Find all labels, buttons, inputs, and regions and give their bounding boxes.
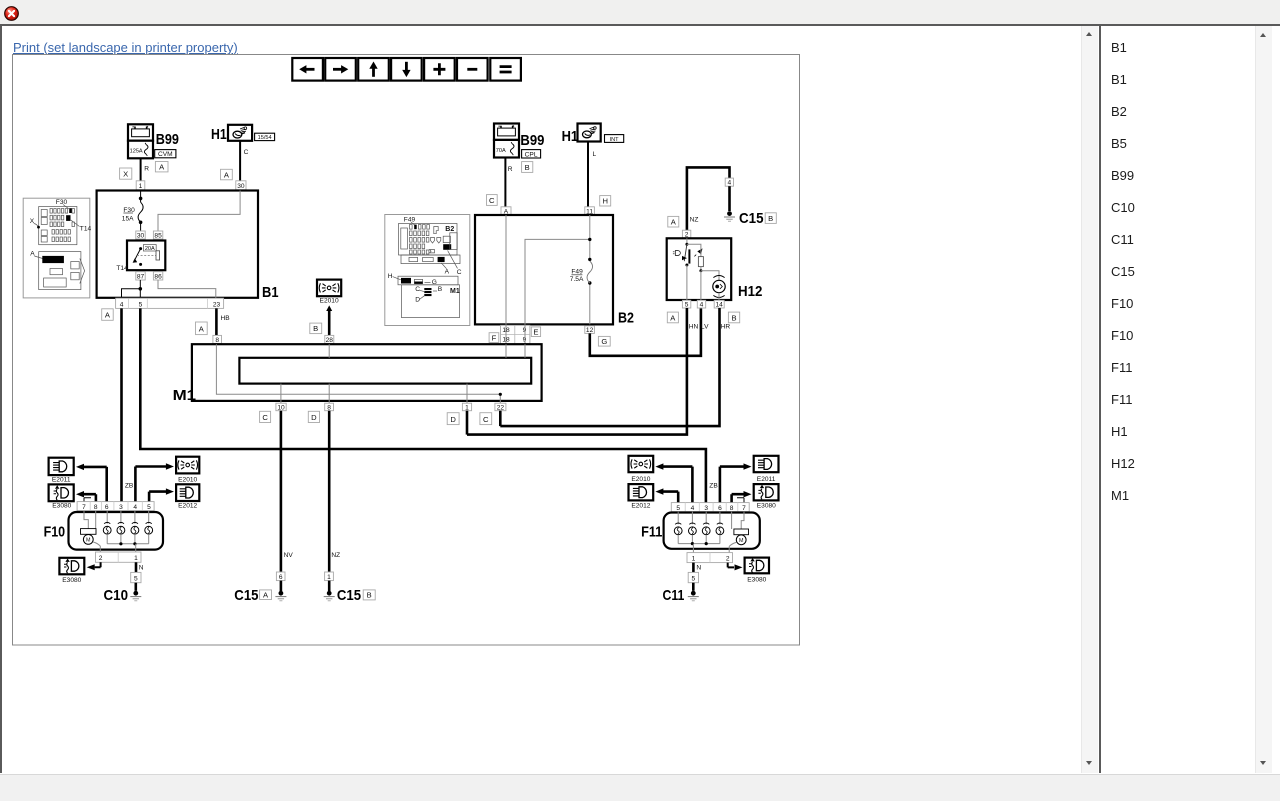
svg-text:22: 22 (497, 404, 505, 411)
svg-text:R: R (508, 166, 513, 173)
svg-text:T14: T14 (80, 225, 92, 232)
svg-text:R: R (144, 165, 149, 172)
svg-text:CPL: CPL (525, 151, 538, 158)
svg-text:1: 1 (139, 183, 143, 190)
svg-text:E3080: E3080 (757, 502, 776, 509)
svg-text:3: 3 (704, 505, 708, 512)
svg-text:F11: F11 (641, 524, 662, 541)
svg-text:7: 7 (742, 505, 746, 512)
svg-text:H1: H1 (562, 128, 579, 145)
svg-text:F10: F10 (44, 524, 66, 541)
svg-text:C: C (262, 413, 268, 422)
svg-text:28: 28 (326, 337, 334, 344)
svg-text:A: A (30, 251, 35, 258)
svg-text:4: 4 (691, 505, 695, 512)
svg-text:CVM: CVM (158, 151, 173, 158)
svg-text:B2: B2 (618, 309, 634, 326)
svg-text:30: 30 (137, 232, 145, 239)
svg-text:20A: 20A (145, 246, 155, 252)
svg-text:H: H (388, 273, 393, 280)
svg-text:B: B (438, 286, 443, 293)
svg-text:M: M (739, 538, 744, 544)
svg-text:F49: F49 (404, 217, 416, 224)
svg-text:2: 2 (726, 555, 730, 562)
svg-text:E2011: E2011 (52, 477, 71, 484)
svg-text:F: F (492, 333, 497, 342)
svg-text:B: B (313, 324, 318, 333)
svg-text:1: 1 (465, 404, 469, 411)
svg-text:C: C (457, 269, 462, 276)
svg-text:E2010: E2010 (320, 297, 339, 304)
svg-text:E3080: E3080 (62, 577, 81, 584)
svg-text:A: A (445, 268, 450, 275)
svg-text:8: 8 (215, 337, 219, 344)
svg-text:86: 86 (154, 273, 162, 280)
svg-text:85: 85 (154, 232, 162, 239)
svg-text:5: 5 (685, 302, 689, 309)
svg-text:C15: C15 (739, 210, 764, 227)
svg-text:M1: M1 (450, 288, 460, 295)
svg-text:N: N (696, 564, 701, 571)
svg-text:F30: F30 (56, 199, 68, 206)
svg-text:B99: B99 (520, 132, 544, 149)
svg-text:B: B (525, 163, 530, 172)
svg-text:C: C (415, 286, 420, 293)
svg-text:NZ: NZ (690, 217, 699, 224)
svg-text:C15: C15 (337, 587, 361, 604)
svg-text:HB: HB (221, 315, 231, 322)
svg-text:B: B (768, 214, 773, 223)
svg-text:INT: INT (610, 137, 620, 143)
svg-text:E2010: E2010 (631, 476, 650, 483)
svg-text:15/54: 15/54 (258, 135, 272, 141)
svg-text:125A: 125A (130, 149, 143, 155)
svg-text:5: 5 (134, 575, 138, 582)
svg-text:X: X (123, 169, 128, 178)
svg-text:5: 5 (139, 301, 143, 308)
svg-text:HN: HN (689, 324, 699, 331)
svg-text:H12: H12 (738, 283, 762, 300)
svg-text:ZB: ZB (125, 483, 134, 490)
svg-text:B: B (367, 591, 372, 600)
svg-text:C10: C10 (104, 587, 129, 604)
svg-text:C11: C11 (663, 587, 685, 604)
svg-text:70A: 70A (496, 148, 506, 154)
svg-text:D: D (311, 413, 317, 422)
svg-text:G: G (601, 337, 607, 346)
svg-text:N: N (139, 564, 144, 571)
svg-text:C: C (244, 149, 249, 156)
svg-text:8: 8 (94, 504, 98, 511)
svg-text:1: 1 (692, 555, 696, 562)
svg-text:5: 5 (147, 504, 151, 511)
svg-text:B99: B99 (156, 131, 179, 148)
svg-text:12: 12 (586, 327, 594, 334)
svg-text:5: 5 (691, 575, 695, 582)
svg-text:8: 8 (327, 404, 331, 411)
svg-text:4: 4 (133, 504, 137, 511)
svg-text:3: 3 (119, 504, 123, 511)
svg-text:NZ: NZ (331, 552, 340, 559)
svg-text:6: 6 (718, 505, 722, 512)
svg-text:4: 4 (727, 180, 731, 187)
svg-text:7: 7 (82, 504, 86, 511)
svg-text:2: 2 (99, 555, 103, 562)
svg-text:7.5A: 7.5A (570, 276, 584, 283)
svg-text:D: D (415, 297, 420, 304)
svg-text:1: 1 (327, 574, 331, 581)
svg-text:8: 8 (730, 505, 734, 512)
svg-text:X: X (30, 218, 35, 225)
svg-text:T14: T14 (116, 265, 128, 272)
svg-text:15A: 15A (122, 215, 134, 222)
svg-text:E3080: E3080 (747, 577, 766, 584)
svg-text:E2012: E2012 (178, 503, 197, 510)
svg-text:C15: C15 (234, 587, 258, 604)
svg-text:30: 30 (237, 183, 245, 190)
svg-text:E2011: E2011 (757, 476, 776, 483)
svg-text:6: 6 (105, 504, 109, 511)
svg-text:ZB: ZB (709, 483, 718, 490)
svg-text:C: C (483, 415, 489, 424)
svg-text:5: 5 (676, 505, 680, 512)
svg-text:E2010: E2010 (178, 477, 197, 484)
svg-text:B: B (731, 313, 736, 322)
svg-text:M1: M1 (173, 387, 197, 404)
svg-text:1: 1 (134, 555, 138, 562)
svg-text:C: C (489, 196, 495, 205)
svg-text:H: H (602, 197, 607, 206)
svg-text:H1: H1 (211, 126, 227, 143)
svg-text:E3080: E3080 (52, 503, 71, 510)
svg-text:23: 23 (213, 301, 221, 308)
svg-text:NV: NV (284, 552, 294, 559)
svg-text:14: 14 (716, 302, 724, 309)
svg-text:L: L (593, 151, 597, 158)
svg-text:B2: B2 (445, 226, 454, 233)
svg-text:D: D (450, 415, 456, 424)
svg-text:6: 6 (279, 574, 283, 581)
svg-text:87: 87 (137, 273, 145, 280)
svg-text:LV: LV (701, 324, 709, 331)
svg-text:M: M (86, 538, 91, 544)
svg-text:4: 4 (120, 301, 124, 308)
svg-text:10: 10 (277, 404, 285, 411)
svg-text:4: 4 (700, 302, 704, 309)
svg-text:B1: B1 (262, 284, 279, 301)
svg-text:E: E (533, 327, 538, 336)
svg-text:HR: HR (721, 324, 731, 331)
svg-text:E2012: E2012 (631, 502, 650, 509)
